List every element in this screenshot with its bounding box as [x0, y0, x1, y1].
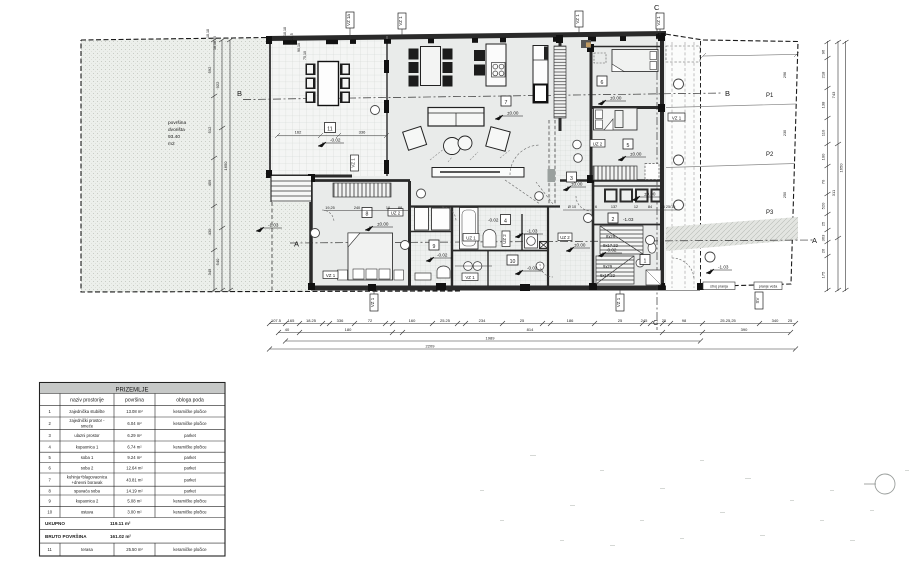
svg-text:spavaća soba: spavaća soba: [74, 489, 101, 494]
bath9 cabinet: [415, 273, 431, 280]
svg-text:250: 250: [783, 192, 787, 198]
svg-text:162: 162: [295, 130, 302, 135]
svg-text:dvorišta: dvorišta: [168, 127, 185, 133]
svg-text:VZ 1: VZ 1: [656, 16, 661, 26]
svg-text:138: 138: [821, 101, 826, 108]
TV sideboard: [432, 168, 524, 178]
svg-text:25.50 m²: 25.50 m²: [126, 547, 143, 552]
svg-text:18,18: 18,18: [206, 29, 210, 38]
svg-text:25: 25: [788, 318, 793, 323]
svg-text:keramičke pločice: keramičke pločice: [173, 547, 207, 552]
svg-text:-0.02: -0.02: [488, 218, 499, 223]
svg-text:175: 175: [821, 271, 826, 278]
wall pier hatch: [581, 40, 591, 48]
coffee tables: [444, 138, 461, 155]
spot elevation flags: [256, 96, 732, 276]
svg-text:363: 363: [821, 234, 826, 241]
UZ VZ tags horizontal: [323, 113, 685, 281]
section line C vertical: [656, 12, 658, 330]
svg-text:keramičke pločice: keramičke pločice: [173, 499, 207, 504]
wc divider x488: [487, 251, 489, 289]
room5 closet comb: [593, 166, 637, 180]
room5 corner shaft: [645, 164, 659, 180]
section line B: [243, 93, 723, 100]
svg-text:11: 11: [327, 127, 332, 133]
svg-text:390: 390: [741, 327, 748, 332]
svg-text:107.5: 107.5: [271, 318, 282, 323]
svg-text:UZ 2: UZ 2: [560, 235, 570, 240]
svg-text:-0.02: -0.02: [437, 253, 448, 258]
svg-text:18.25: 18.25: [306, 318, 317, 323]
svg-text:6.29 m²: 6.29 m²: [127, 433, 142, 438]
waste room top y186: [593, 185, 662, 187]
svg-text:96: 96: [821, 49, 826, 54]
room4 washer: [525, 234, 538, 248]
cooktop: [492, 63, 506, 78]
svg-text:84: 84: [648, 205, 652, 209]
svg-text:160: 160: [409, 318, 416, 323]
svg-text:2: 2: [612, 217, 615, 223]
svg-text:VZ 1: VZ 1: [575, 14, 580, 24]
svg-text:18,18: 18,18: [283, 27, 287, 36]
parking left boundary dashed: [700, 41, 702, 284]
svg-text:100: 100: [821, 153, 826, 160]
table grid lines: [40, 394, 226, 557]
annex internal dim row: [563, 209, 680, 211]
svg-text:512: 512: [207, 126, 212, 133]
left dim rulers over courtyard: [214, 40, 230, 292]
bedroom top wall: [311, 179, 410, 182]
svg-text:+dnevni boravak: +dnevni boravak: [72, 480, 104, 485]
svg-text:VZ 1: VZ 1: [465, 275, 475, 280]
svg-text:keramičke pločice: keramičke pločice: [173, 445, 207, 450]
svg-text:218: 218: [821, 71, 826, 78]
island stools: [474, 50, 485, 76]
svg-text:25: 25: [618, 318, 623, 323]
svg-text:B: B: [237, 89, 242, 98]
pantry comb wall: [554, 46, 566, 118]
niche wall x522: [521, 214, 523, 250]
svg-text:VZ 1: VZ 1: [672, 116, 682, 121]
svg-text:površina: površina: [168, 120, 186, 126]
parking side rotated dims: [783, 72, 787, 198]
svg-text:obloga poda: obloga poda: [176, 398, 204, 404]
svg-text:zajednički prostor -: zajednički prostor -: [69, 418, 105, 423]
bottom dimension chains: [269, 324, 795, 350]
gallery top dashed box: [666, 46, 700, 62]
svg-text:230: 230: [783, 130, 787, 136]
staircase flight1: [600, 226, 643, 254]
terrace internal dim line: [277, 135, 386, 137]
courtyard dotted area: [81, 38, 311, 292]
room schedule table: [40, 383, 226, 557]
svg-text:-1.03: -1.03: [527, 229, 538, 234]
right gallery strip fill: [666, 40, 700, 290]
room4 sink: [483, 230, 496, 248]
svg-text:93.40: 93.40: [168, 134, 180, 140]
svg-text:kupaonica 2: kupaonica 2: [76, 499, 99, 504]
terrace tiles: [271, 40, 388, 176]
svg-text:6.04 m²: 6.04 m²: [127, 421, 142, 426]
svg-text:520: 520: [821, 202, 826, 209]
plot edge dashed below terrace: [271, 176, 273, 292]
svg-text:70: 70: [821, 179, 826, 184]
svg-text:A: A: [294, 240, 299, 249]
svg-text:stroj pranja: stroj pranja: [710, 285, 728, 289]
svg-text:VZ 1a: VZ 1a: [346, 14, 351, 26]
svg-text:1650: 1650: [839, 163, 844, 173]
svg-text:6.74 m²: 6.74 m²: [127, 445, 142, 450]
svg-text:234: 234: [479, 318, 486, 323]
svg-text:10: 10: [510, 259, 516, 265]
parking area division lines: [666, 104, 796, 168]
svg-text:UZ 2: UZ 2: [593, 142, 603, 147]
room1 sink: [636, 259, 644, 267]
svg-text:19,25: 19,25: [325, 206, 335, 210]
svg-text:UZ 1: UZ 1: [466, 236, 476, 241]
bottom-right wall small labeled boxes: [703, 282, 735, 290]
svg-text:336: 336: [337, 318, 344, 323]
svg-text:6x17.22: 6x17.22: [600, 273, 616, 278]
svg-text:40: 40: [285, 327, 290, 332]
columns circles: [311, 79, 716, 262]
noise specks lower right: [480, 455, 909, 546]
top-left tiny rotated dims: [206, 27, 307, 60]
svg-text:6: 6: [601, 80, 604, 86]
rooms 5/6 left wall: [590, 45, 593, 181]
room number tags: [325, 76, 651, 265]
svg-text:75,10: 75,10: [303, 51, 307, 60]
right exterior wall: [660, 34, 664, 290]
parcel boundary dashed: [81, 34, 798, 287]
right dim rulers: [828, 41, 846, 291]
svg-text:parket: parket: [184, 466, 196, 471]
svg-text:1650: 1650: [223, 161, 228, 171]
svg-text:parket: parket: [184, 455, 196, 460]
svg-text:5: 5: [627, 143, 630, 149]
svg-text:keramičke pločice: keramičke pločice: [173, 421, 207, 426]
bath9 closets top: [415, 208, 429, 231]
svg-text:245: 245: [641, 318, 648, 323]
bottom exterior wall: [311, 286, 700, 291]
top tag boxes with leaders: [346, 11, 664, 40]
door arcs: [322, 145, 694, 280]
svg-text:VZ 1: VZ 1: [351, 158, 356, 168]
bathroom tile floors: [410, 207, 452, 288]
wall x548: [547, 206, 549, 288]
svg-text:P2: P2: [766, 152, 774, 158]
svg-text:-1.03: -1.03: [623, 217, 634, 222]
top wall window blocks: [283, 34, 664, 45]
bedroom dim row: [324, 210, 409, 212]
living dining table: [421, 47, 441, 86]
bedroom closet comb: [333, 183, 391, 197]
svg-text:13.08 m²: 13.08 m²: [126, 409, 143, 414]
svg-text:UZ 2: UZ 2: [502, 234, 507, 244]
bed room6 top: [612, 50, 658, 72]
terrace chairs left: [306, 64, 351, 104]
svg-text:98: 98: [682, 318, 687, 323]
bedroom nightstands: [338, 270, 348, 280]
svg-text:2209: 2209: [426, 344, 436, 349]
tub middle room: [460, 208, 479, 250]
svg-text:430: 430: [207, 228, 212, 235]
room6 top wall: [591, 46, 662, 48]
svg-text:parket: parket: [184, 433, 196, 438]
svg-text:311: 311: [831, 189, 836, 196]
svg-text:VZ 1: VZ 1: [616, 297, 621, 307]
svg-text:25 25/15: 25 25/15: [661, 205, 676, 209]
svg-text:parket: parket: [184, 489, 196, 494]
wc toilets: [464, 262, 473, 271]
svg-text:18,18,30: 18,18,30: [213, 36, 217, 50]
svg-text:parket: parket: [184, 478, 196, 483]
svg-text:72: 72: [368, 318, 373, 323]
svg-text:540: 540: [215, 258, 220, 265]
svg-text:25: 25: [821, 221, 826, 226]
armchair right: [486, 127, 510, 151]
svg-text:-0.02: -0.02: [527, 266, 538, 271]
svg-text:SV: SV: [755, 298, 760, 304]
svg-text:345: 345: [207, 268, 212, 275]
svg-text:±0.00: ±0.00: [507, 111, 519, 116]
room10 circle: [536, 262, 544, 270]
svg-text:C: C: [654, 3, 660, 12]
bath9 toilet: [437, 266, 450, 278]
svg-text:459: 459: [207, 179, 212, 186]
hall gray pier: [548, 169, 556, 182]
svg-text:90,10: 90,10: [297, 43, 301, 52]
courtyard text: [168, 120, 186, 147]
svg-text:11: 11: [48, 547, 53, 552]
bedroom right wall: [408, 181, 411, 288]
room5 bottom / annex top: [560, 179, 662, 182]
svg-text:VZ 1: VZ 1: [398, 16, 403, 26]
svg-text:165: 165: [288, 318, 295, 323]
svg-text:±0.00: ±0.00: [571, 182, 583, 187]
svg-text:pranje veša: pranje veša: [759, 285, 778, 289]
svg-text:smeće: smeće: [81, 424, 94, 429]
svg-text:soba 1: soba 1: [81, 455, 94, 460]
terrace left wall: [269, 38, 271, 176]
svg-text:6: 6: [595, 205, 597, 209]
svg-text:1: 1: [644, 259, 647, 265]
svg-text:±0.00: ±0.00: [377, 222, 389, 227]
svg-text:terasa: terasa: [81, 547, 93, 552]
svg-text:10: 10: [386, 206, 390, 210]
column blocks dark: [266, 33, 704, 291]
waste/stair divider y224: [593, 224, 662, 226]
room1 shower: [646, 270, 661, 285]
terrace dining table: [318, 62, 339, 106]
kitchen wall x560: [559, 35, 562, 131]
svg-text:VZ 1: VZ 1: [326, 273, 336, 278]
svg-text:naziv prostorije: naziv prostorije: [70, 398, 104, 404]
center top wall of lower rooms: [409, 205, 560, 207]
svg-text:9x29: 9x29: [603, 264, 613, 269]
svg-text:25: 25: [520, 318, 525, 323]
svg-text:C: C: [653, 318, 659, 327]
section line A: [290, 240, 815, 243]
svg-text:25.25: 25.25: [440, 318, 451, 323]
svg-text:137: 137: [611, 205, 617, 209]
hall overhead dashed beam: [549, 120, 555, 206]
svg-text:VZ 1: VZ 1: [370, 297, 375, 307]
terrace outside stair left: [271, 176, 311, 202]
svg-text:keramičke pločice: keramičke pločice: [173, 409, 207, 414]
svg-text:±0.00: ±0.00: [630, 152, 642, 157]
left lower wall: [309, 177, 313, 290]
svg-text:8x29: 8x29: [606, 234, 616, 239]
svg-text:14.19 m²: 14.19 m²: [126, 489, 143, 494]
svg-text:4: 4: [504, 219, 507, 225]
svg-text:±0.00: ±0.00: [574, 243, 586, 248]
svg-text:340: 340: [772, 318, 779, 323]
svg-text:B: B: [725, 89, 730, 98]
svg-text:814: 814: [527, 327, 534, 332]
svg-text:PRIZEMLJE: PRIZEMLJE: [115, 388, 148, 394]
svg-text:12.64 m²: 12.64 m²: [126, 466, 143, 471]
annex inner wall x594 lower: [592, 181, 595, 288]
terrace-living glass wall: [386, 36, 388, 176]
svg-text:119.11 m²: 119.11 m²: [110, 521, 131, 526]
svg-text:9.24 m²: 9.24 m²: [127, 455, 142, 460]
sidewalk diagonal hatch band right: [666, 217, 798, 251]
svg-text:8: 8: [366, 212, 369, 218]
svg-text:88: 88: [398, 206, 402, 210]
building interior fill: [268, 32, 666, 290]
terrace bottom wall: [268, 175, 352, 178]
svg-text:9: 9: [433, 244, 436, 250]
svg-text:25: 25: [662, 318, 667, 323]
svg-text:186: 186: [567, 318, 574, 323]
svg-text:-0.02: -0.02: [330, 138, 341, 143]
svg-text:10: 10: [47, 510, 52, 515]
bed room5: [594, 108, 638, 130]
svg-text:9x21,5: 9x21,5: [290, 33, 294, 44]
rooms 6/5 divider: [591, 106, 662, 109]
shaft x-box: [539, 241, 548, 249]
svg-text:1989: 1989: [486, 336, 496, 341]
kitchen island: [486, 44, 506, 86]
living dining chairs: [409, 49, 453, 87]
rug dashed: [430, 148, 510, 162]
svg-text:43.81 m²: 43.81 m²: [126, 478, 143, 483]
gallery dashed verticals: [672, 42, 694, 288]
svg-text:UKUPNO: UKUPNO: [45, 521, 65, 526]
svg-text:kupaonica 1: kupaonica 1: [76, 445, 99, 450]
wall y250 under room4: [452, 250, 548, 252]
svg-text:±0.00: ±0.00: [644, 192, 656, 197]
svg-text:296: 296: [783, 72, 787, 78]
bath9 right wall x452: [451, 207, 453, 289]
svg-text:soba 2: soba 2: [81, 466, 94, 471]
page mark circle right: [875, 474, 895, 494]
svg-text:UZ 2: UZ 2: [391, 211, 401, 216]
svg-text:7: 7: [505, 100, 508, 106]
armchair left: [403, 126, 427, 150]
svg-text:P1: P1: [766, 93, 774, 99]
VZ tags rotated vertical: [351, 155, 764, 311]
svg-text:površina: površina: [125, 398, 144, 404]
svg-text:ostava: ostava: [81, 510, 94, 515]
waste containers: [604, 189, 662, 203]
top exterior wall: [268, 34, 666, 39]
svg-text:-0.02: -0.02: [606, 248, 617, 253]
svg-text:240: 240: [354, 206, 360, 210]
svg-text:25.25,25: 25.25,25: [720, 318, 736, 323]
svg-text:BRUTO POVRŠINA: BRUTO POVRŠINA: [45, 532, 87, 539]
svg-text:±0.00: ±0.00: [610, 96, 622, 101]
subheader texts: [70, 398, 204, 404]
svg-text:161.02 m²: 161.02 m²: [110, 534, 131, 539]
svg-text:keramičke pločice: keramičke pločice: [173, 510, 207, 515]
sofa: [428, 108, 484, 127]
master bed room8: [348, 233, 393, 280]
svg-text:743: 743: [831, 91, 836, 98]
svg-text:5.08 m²: 5.08 m²: [127, 499, 142, 504]
parking top dim line: [703, 55, 797, 57]
svg-text:922: 922: [215, 81, 220, 88]
svg-text:kuhinja+blagovaonica: kuhinja+blagovaonica: [67, 475, 108, 480]
staircase flight2: [596, 256, 634, 284]
svg-text:336: 336: [359, 130, 366, 135]
svg-text:-1.03: -1.03: [718, 265, 729, 270]
svg-text:3.00 m²: 3.00 m²: [127, 510, 142, 515]
svg-text:-1.03: -1.03: [268, 223, 279, 228]
kitchen tall cabinets: [533, 46, 548, 104]
table body: [47, 409, 207, 552]
svg-text:Ø 10: Ø 10: [568, 205, 576, 209]
svg-text:110: 110: [821, 129, 826, 136]
svg-text:180: 180: [345, 327, 352, 332]
svg-text:m2: m2: [168, 141, 175, 147]
svg-text:26: 26: [821, 248, 826, 253]
room1 toilet: [648, 243, 656, 253]
svg-text:ulazni prostor: ulazni prostor: [74, 433, 100, 438]
svg-text:A: A: [812, 236, 817, 245]
svg-text:12: 12: [634, 205, 638, 209]
svg-text:P3: P3: [766, 210, 774, 216]
svg-text:zajednička stubište: zajednička stubište: [69, 409, 105, 414]
svg-text:592: 592: [207, 66, 212, 73]
interior partition walls: [311, 35, 662, 288]
